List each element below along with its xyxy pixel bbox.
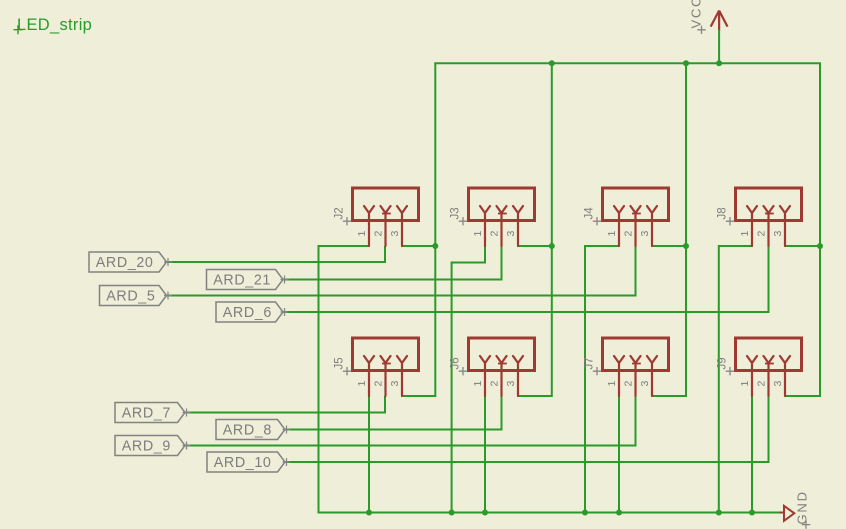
wire VCC vertical J2/J5 xyxy=(434,63,436,397)
wire J4 pin1 to GND (left + down) xyxy=(585,245,619,247)
connector J9 xyxy=(717,338,802,396)
svg-text:1: 1 xyxy=(739,381,751,387)
wire net ARD_21 xyxy=(283,279,503,281)
svg-text:3: 3 xyxy=(772,381,784,387)
wire VCC tap to J3 pin3 xyxy=(519,245,552,247)
node GND bus junction J8 xyxy=(716,510,722,516)
svg-text:ARD_7: ARD_7 xyxy=(122,406,171,422)
node GND bus junction J3 xyxy=(449,510,455,516)
svg-text:2: 2 xyxy=(622,381,634,387)
svg-text:3: 3 xyxy=(639,381,651,387)
wire J8 pin1 to GND (left + down) xyxy=(719,245,752,247)
wire net ARD_7 xyxy=(185,412,386,414)
svg-text:3: 3 xyxy=(505,381,517,387)
wire VCC foot to J9 pin3 xyxy=(785,395,820,397)
svg-text:1: 1 xyxy=(472,381,484,387)
connector J7 xyxy=(584,338,669,396)
svg-text:2: 2 xyxy=(372,231,384,237)
wire VCC vertical J4/J7 xyxy=(685,63,687,397)
svg-text:J8: J8 xyxy=(717,207,729,219)
svg-text:ARD_5: ARD_5 xyxy=(106,289,155,305)
svg-text:J2: J2 xyxy=(334,207,346,219)
wire J6 pin1 down to GND xyxy=(484,396,486,513)
svg-text:J6: J6 xyxy=(450,357,462,369)
node VCC junction (686,246) xyxy=(683,243,689,249)
svg-text:LED_strip: LED_strip xyxy=(17,16,92,34)
svg-text:1: 1 xyxy=(356,381,368,387)
ground symbol GND xyxy=(779,490,810,529)
power symbol VCC xyxy=(689,0,728,34)
svg-text:1: 1 xyxy=(606,231,618,237)
svg-text:J4: J4 xyxy=(584,207,596,220)
svg-text:3: 3 xyxy=(389,231,401,237)
connector J2 xyxy=(334,188,419,246)
wire VCC vertical J3/J6 xyxy=(551,63,553,397)
svg-text:GND: GND xyxy=(795,490,810,524)
node VCC bus junction x=686 xyxy=(683,60,689,66)
node GND bus junction J9 xyxy=(749,510,755,516)
wire VCC foot to J7 pin3 xyxy=(652,395,686,397)
wire VCC foot to J6 pin3 xyxy=(519,395,552,397)
net flag ARD_20 xyxy=(89,252,172,272)
svg-text:J9: J9 xyxy=(717,357,729,369)
wire net ARD_8 xyxy=(285,429,503,431)
wire J3 pin1 to GND (down, left, down) xyxy=(484,246,486,263)
connector J4 xyxy=(584,188,669,246)
net flag ARD_6 xyxy=(216,302,289,322)
connector J6 xyxy=(450,338,535,396)
svg-text:3: 3 xyxy=(639,231,651,237)
wire net ARD_10 xyxy=(285,461,770,463)
wire J7 pin1 down to GND xyxy=(618,396,620,513)
wire J2 pin1 to GND (left + down) xyxy=(319,245,370,247)
wire J5 pin1 down to GND xyxy=(368,396,370,513)
svg-text:1: 1 xyxy=(606,381,618,387)
connector J8 xyxy=(717,188,802,246)
wire VCC vertical J8/J9 xyxy=(819,63,821,397)
svg-text:ARD_6: ARD_6 xyxy=(223,305,272,321)
net flag ARD_9 xyxy=(115,436,191,456)
net flag ARD_10 xyxy=(207,452,291,472)
node VCC junction (435.3,246) xyxy=(432,243,438,249)
svg-text:ARD_8: ARD_8 xyxy=(223,423,272,439)
svg-text:2: 2 xyxy=(622,231,634,237)
node GND bus junction J5 xyxy=(366,510,372,516)
svg-text:2: 2 xyxy=(755,231,767,237)
wire VCC bus xyxy=(434,62,821,64)
svg-text:1: 1 xyxy=(472,231,484,237)
svg-text:2: 2 xyxy=(755,381,767,387)
net flag ARD_7 xyxy=(115,403,191,423)
connector J3 xyxy=(450,188,535,246)
svg-text:2: 2 xyxy=(488,381,500,387)
node GND bus junction J7 xyxy=(616,510,622,516)
svg-text:3: 3 xyxy=(389,381,401,387)
svg-text:VCC: VCC xyxy=(689,0,704,29)
connector J5 xyxy=(334,338,419,396)
net flag ARD_5 xyxy=(100,286,173,306)
svg-text:J3: J3 xyxy=(450,207,462,219)
node VCC junction (551.8,246) xyxy=(549,243,555,249)
svg-text:J7: J7 xyxy=(584,357,596,369)
svg-text:3: 3 xyxy=(505,231,517,237)
svg-text:1: 1 xyxy=(739,231,751,237)
wire VCC tap to J8 pin3 xyxy=(785,245,820,247)
svg-text:2: 2 xyxy=(488,231,500,237)
svg-text:ARD_20: ARD_20 xyxy=(96,255,154,271)
node GND bus junction J6 xyxy=(482,510,488,516)
wire VCC stem xyxy=(718,30,720,64)
wire net ARD_20 xyxy=(167,261,387,263)
node VCC bus junction at stem xyxy=(716,60,722,66)
svg-text:J5: J5 xyxy=(334,357,346,369)
wire net ARD_5 xyxy=(167,295,637,297)
sheet title LED_strip xyxy=(14,16,93,34)
wire VCC foot to J5 pin3 xyxy=(402,395,435,397)
svg-text:3: 3 xyxy=(772,231,784,237)
svg-text:ARD_10: ARD_10 xyxy=(214,455,272,471)
svg-text:ARD_21: ARD_21 xyxy=(213,273,271,289)
node VCC junction (820,246) xyxy=(817,243,823,249)
svg-text:1: 1 xyxy=(356,231,368,237)
wire J9 pin1 down to GND xyxy=(751,396,753,513)
node VCC bus junction x=551.8 xyxy=(549,60,555,66)
wire GND bus xyxy=(318,512,780,514)
net flag ARD_21 xyxy=(207,270,289,290)
wire net ARD_6 xyxy=(283,311,770,313)
net flag ARD_8 xyxy=(216,420,291,440)
wire VCC tap to J4 pin3 xyxy=(652,245,686,247)
svg-text:ARD_9: ARD_9 xyxy=(122,439,171,455)
node GND bus junction J4 xyxy=(582,510,588,516)
svg-text:2: 2 xyxy=(372,381,384,387)
wire net ARD_9 xyxy=(185,445,637,447)
wire VCC tap to J2 pin3 xyxy=(402,245,435,247)
